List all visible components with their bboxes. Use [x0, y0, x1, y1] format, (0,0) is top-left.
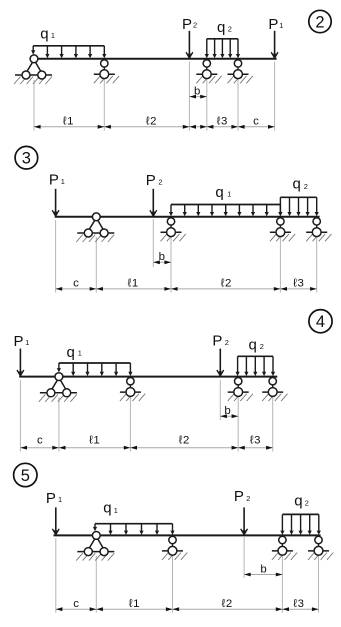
svg-text:2: 2: [158, 178, 162, 187]
svg-text:ℓ1: ℓ1: [63, 116, 74, 128]
distributed load q1 (problem 5): [93, 524, 175, 535]
svg-text:2: 2: [246, 494, 250, 503]
point load P1 (problem 5): [52, 507, 59, 535]
svg-text:c: c: [37, 434, 43, 446]
svg-text:1: 1: [25, 338, 29, 347]
dimension l1 (problem 5): [96, 598, 172, 611]
svg-text:ℓ1: ℓ1: [129, 598, 140, 610]
roller support C (problem 3): [270, 218, 295, 242]
extension line at roller D (problem 4): [272, 397, 274, 452]
distributed load q1 (problem 4): [57, 363, 133, 376]
svg-text:P: P: [234, 488, 244, 505]
svg-text:2: 2: [225, 338, 229, 347]
extension line at roller B (problem 3): [170, 236, 172, 293]
extension line at roller C (problem 5): [281, 556, 283, 613]
svg-text:b: b: [159, 251, 165, 263]
distributed load q2 (problem 5): [280, 514, 321, 535]
svg-text:ℓ2: ℓ2: [146, 116, 157, 128]
svg-text:4: 4: [316, 313, 325, 331]
distributed load q1 (problem 2): [31, 46, 106, 59]
dimension b (problem 3): [153, 251, 171, 264]
svg-text:q: q: [215, 184, 223, 201]
dimension l3 (problem 5): [282, 598, 318, 611]
roller support D (problem 3): [306, 218, 331, 242]
svg-text:P: P: [46, 490, 56, 507]
svg-text:q: q: [103, 500, 111, 517]
dimension segment P2-C (problem 2): [189, 125, 206, 129]
svg-text:5: 5: [21, 467, 30, 485]
extension line at P2 (problem 3): [152, 219, 154, 267]
extension line at pin A (problem 2): [33, 80, 35, 131]
svg-text:ℓ3: ℓ3: [293, 598, 304, 610]
svg-text:P: P: [268, 16, 278, 33]
extension line at beam end (problem 2): [274, 62, 276, 131]
pin support A (problem 3): [76, 213, 114, 242]
svg-text:2: 2: [193, 21, 197, 30]
extension line at pin A (problem 3): [95, 237, 97, 293]
svg-text:ℓ1: ℓ1: [127, 278, 138, 290]
extension line at roller C (problem 2): [206, 79, 208, 131]
extension line at pin A (problem 5): [95, 556, 97, 613]
distributed load q2 (problem 2): [205, 39, 240, 59]
svg-text:P: P: [146, 172, 156, 189]
svg-text:1: 1: [114, 506, 118, 515]
problem number 5: [14, 463, 37, 486]
distributed load q2 (problem 4): [236, 356, 276, 376]
dimension c (problem 2): [238, 116, 275, 129]
extension line at roller D (problem 3): [316, 236, 318, 293]
svg-text:1: 1: [61, 177, 65, 186]
roller support D (problem 2): [228, 60, 253, 84]
beam (problem 2): [30, 58, 276, 60]
extension line at roller B (problem 5): [172, 554, 174, 613]
svg-text:2: 2: [228, 25, 232, 34]
extension line at roller D (problem 2): [237, 79, 239, 131]
svg-text:ℓ3: ℓ3: [250, 434, 261, 446]
extension line at P1 (problem 5): [55, 538, 57, 613]
label P1 (problem 2): [268, 16, 283, 33]
problem number 4: [309, 310, 332, 333]
svg-text:ℓ2: ℓ2: [221, 598, 232, 610]
dimension c (problem 4): [20, 434, 59, 449]
dimension l2 (problem 3): [171, 278, 280, 291]
dimension l1 (problem 4): [59, 434, 130, 449]
svg-text:q: q: [217, 19, 225, 36]
dimension l2 (problem 2): [104, 116, 189, 129]
roller support B (problem 4): [120, 378, 145, 402]
extension line at pin A (problem 4): [58, 397, 60, 452]
label q2 (problem 5): [294, 492, 309, 509]
distributed load q2 (problem 3): [278, 197, 319, 216]
extension line at P2 (problem 5): [243, 537, 245, 578]
svg-text:ℓ3: ℓ3: [217, 116, 228, 128]
point load P2 (problem 4): [217, 349, 224, 377]
roller support B (problem 2): [94, 60, 119, 84]
dimension l1 (problem 3): [96, 278, 171, 291]
label P2 (problem 2): [182, 16, 197, 33]
roller support B (problem 5): [162, 536, 187, 560]
pin support A (problem 4): [39, 373, 77, 402]
beam (problem 4): [19, 376, 277, 378]
svg-text:1: 1: [227, 189, 231, 198]
svg-text:P: P: [14, 333, 24, 350]
roller support C (problem 4): [228, 378, 253, 402]
extension line at P2 (problem 4): [219, 380, 221, 420]
roller support D (problem 5): [308, 536, 333, 560]
svg-text:3: 3: [22, 150, 31, 168]
problem number 2: [309, 10, 331, 32]
dimension c (problem 5): [56, 598, 97, 611]
extension line at roller D (problem 5): [318, 556, 320, 613]
svg-text:P: P: [182, 16, 192, 33]
svg-text:q: q: [40, 26, 48, 43]
distributed load q1 (problem 3): [169, 205, 283, 217]
problem number 3: [15, 146, 38, 169]
label P2 (problem 4): [212, 332, 228, 349]
svg-text:b: b: [224, 405, 230, 417]
dimension b (problem 5): [244, 563, 282, 576]
roller support D (problem 4): [262, 378, 287, 402]
label P1 (problem 5): [46, 490, 62, 507]
roller support B (problem 3): [161, 218, 186, 242]
point load P1 (problem 4): [17, 349, 24, 377]
pin support A (problem 2): [14, 55, 52, 84]
svg-text:P: P: [49, 172, 59, 189]
roller support C (problem 5): [272, 536, 297, 560]
label q2 (problem 3): [293, 176, 308, 193]
dimension l3 (problem 3): [280, 278, 316, 291]
extension line at roller C (problem 4): [237, 397, 239, 452]
point load P1 (problem 2): [271, 31, 278, 59]
dimension l3 (problem 4): [238, 434, 273, 449]
beam (problem 5): [54, 534, 321, 536]
svg-text:c: c: [73, 598, 79, 610]
dimension l1 (problem 2): [34, 116, 104, 129]
svg-text:q: q: [293, 176, 301, 193]
label P2 (problem 5): [234, 488, 251, 505]
svg-text:P: P: [212, 332, 222, 349]
label q2 (problem 4): [249, 337, 264, 354]
extension line at P2 (problem 2): [188, 62, 190, 131]
label q1 (problem 5): [103, 500, 118, 517]
svg-text:b: b: [194, 85, 200, 97]
extension line at roller B (problem 2): [103, 79, 105, 131]
roller support C (problem 2): [196, 60, 221, 84]
svg-text:q: q: [249, 337, 257, 354]
dimension c (problem 3): [56, 278, 97, 291]
pin support A (problem 5): [76, 532, 114, 561]
svg-text:1: 1: [279, 21, 283, 30]
svg-text:2: 2: [305, 498, 309, 507]
dimension l2 (problem 4): [130, 434, 238, 449]
svg-text:ℓ1: ℓ1: [89, 434, 100, 446]
label P1 (problem 4): [14, 333, 30, 350]
point load P2 (problem 2): [186, 31, 193, 59]
svg-text:b: b: [260, 563, 266, 575]
point load P2 (problem 3): [150, 189, 157, 217]
label q1 (problem 4): [67, 344, 82, 361]
point load P2 (problem 5): [241, 507, 248, 535]
dimension l3 (problem 2): [207, 116, 238, 129]
dimension b (problem 4): [220, 405, 238, 418]
svg-text:c: c: [73, 278, 79, 290]
svg-text:ℓ2: ℓ2: [221, 278, 232, 290]
label q1 (problem 2): [40, 26, 55, 43]
svg-text:2: 2: [315, 14, 324, 32]
extension line at roller B (problem 4): [129, 396, 131, 452]
svg-text:ℓ2: ℓ2: [179, 434, 190, 446]
label q2 (problem 2): [217, 19, 232, 36]
svg-text:1: 1: [58, 495, 62, 504]
svg-text:1: 1: [51, 31, 55, 40]
svg-text:2: 2: [304, 182, 308, 191]
extension line at P1 (problem 4): [19, 380, 21, 452]
label P1 (problem 3): [49, 172, 65, 189]
dimension l2 (problem 5): [173, 598, 283, 611]
point load P1 (problem 3): [52, 189, 59, 217]
label P2 (problem 3): [146, 172, 163, 189]
extension line at P1 (problem 3): [55, 220, 57, 293]
svg-text:q: q: [67, 344, 75, 361]
extension line at roller C (problem 3): [279, 236, 281, 293]
svg-text:q: q: [294, 492, 302, 509]
svg-text:c: c: [253, 116, 259, 128]
beam (problem 3): [55, 216, 320, 218]
svg-text:ℓ3: ℓ3: [293, 278, 304, 290]
label q1 (problem 3): [215, 184, 231, 201]
svg-text:1: 1: [78, 348, 82, 357]
svg-text:2: 2: [260, 342, 264, 351]
dimension b (problem 2): [189, 85, 206, 98]
